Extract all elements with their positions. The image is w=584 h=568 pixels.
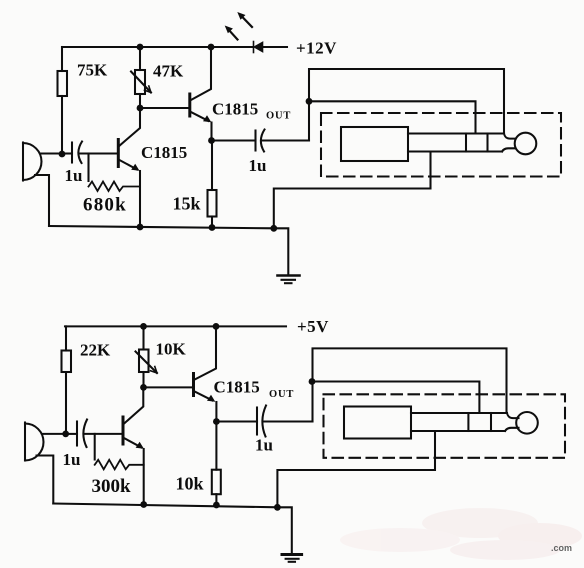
svg-text:1u: 1u (255, 436, 273, 455)
svg-text:10K: 10K (156, 340, 187, 359)
svg-text:1u: 1u (65, 166, 83, 185)
svg-text:C1815: C1815 (141, 143, 187, 162)
svg-text:22K: 22K (80, 341, 111, 360)
svg-text:75K: 75K (77, 61, 108, 80)
svg-text:680k: 680k (83, 195, 127, 216)
svg-text:OUT: OUT (266, 111, 291, 122)
svg-text:10k: 10k (176, 474, 204, 494)
svg-text:15k: 15k (173, 194, 201, 214)
svg-text:47K: 47K (153, 62, 184, 81)
svg-text:1u: 1u (63, 450, 81, 469)
svg-text:+12V: +12V (296, 39, 337, 58)
svg-text:.com: .com (551, 543, 572, 553)
svg-text:C1815: C1815 (212, 100, 258, 119)
svg-text:1u: 1u (249, 156, 267, 175)
svg-text:OUT: OUT (269, 389, 294, 400)
svg-text:C1815: C1815 (214, 378, 260, 397)
svg-text:300k: 300k (92, 476, 132, 497)
svg-text:+5V: +5V (297, 317, 329, 336)
